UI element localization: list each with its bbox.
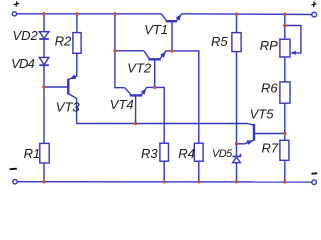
svg-text:VT4: VT4 [110,97,134,112]
junction VT1 base node [170,49,173,52]
terminal +in (top-left) [12,12,16,16]
wire R7 bottom lead [284,160,286,182]
resistor R1 [40,143,49,163]
terminal -out (bottom-right) [312,180,317,185]
resistor R4 [194,143,203,161]
resistor R2 [73,33,81,54]
junction top rail R2 [75,12,78,15]
svg-text:VT3: VT3 [56,100,81,115]
wire R4 bottom lead [198,161,200,182]
wire R2 top lead [76,14,78,33]
junction bottom rail R7 [283,180,286,183]
wire VT2 VT4 collector column [115,14,125,88]
wire VT1 base to R4 [172,51,199,143]
junction VT4 base on bus [134,122,137,125]
potentiometer RP [280,26,301,58]
svg-text:R4: R4 [178,146,195,161]
transistor VT2 [144,51,172,88]
svg-text:RP: RP [260,38,278,53]
diode VD4 [39,57,49,65]
junction VT5 emitter VD5 [235,142,238,145]
svg-text:VT2: VT2 [127,61,152,76]
wire VT3 base lead [44,86,67,88]
terminal -in (bottom-left) [13,180,17,184]
svg-text:R7: R7 [262,140,279,155]
wire VT2 base to R3 [155,87,165,143]
wire VT2 collector lead [115,50,144,52]
junction VT5 base divider [283,132,286,135]
resistor R6 [280,82,290,103]
polarity mark plus top-right [311,2,316,7]
junction node VD4 VT3 base [42,85,45,88]
wire R5 column [236,14,238,182]
junction RP wiper tap [283,24,286,27]
junction bottom rail R1 [42,180,45,183]
junction top rail R5 [235,12,238,15]
svg-text:R2: R2 [55,33,72,48]
wire RP column top [284,14,286,39]
wire collector bus (long horizontal) [77,123,248,125]
wire top rail right segment [182,13,312,16]
wire R6 to R7 [284,103,286,140]
junction top rail VD2 [42,12,45,15]
svg-text:VD2: VD2 [13,28,39,43]
svg-text:R5: R5 [211,34,228,49]
junction bottom rail R3 [163,180,166,183]
svg-text:R6: R6 [261,80,278,95]
junction bottom rail R4 [197,180,200,183]
terminal +out (top-right) [312,12,317,17]
transistor VT4 [125,87,155,123]
transistor VT1 [162,14,182,51]
junction top rail RP [283,13,286,16]
polarity mark plus top-left [14,1,20,6]
junction bottom rail VD5 [235,180,238,183]
wire top rail left segment [17,13,162,15]
svg-text:VD4: VD4 [11,56,34,71]
transistor VT5 [237,124,285,145]
diode VD2 [39,32,49,39]
wire VD2 VD4 column [43,14,45,182]
junction VT2 base node [153,86,156,89]
polarity mark minus bottom-right [312,172,318,174]
resistor R5 [232,33,241,52]
svg-text:VT1: VT1 [144,22,168,37]
svg-text:VD5: VD5 [212,148,233,160]
junction VT2 collector [113,49,116,52]
svg-text:R3: R3 [141,146,158,161]
svg-text:VT5: VT5 [250,107,275,122]
resistor R3 [160,143,169,161]
resistor R7 [280,140,289,160]
wire bottom rail [17,181,311,183]
transistor VT3 [68,53,77,123]
wire RP to R6 [284,57,286,82]
svg-text:R1: R1 [24,146,41,161]
junction top rail collector column [113,12,116,15]
zener diode VD5 [232,154,240,163]
wire R3 bottom lead [163,161,165,182]
polarity mark minus bottom-left [10,168,17,171]
